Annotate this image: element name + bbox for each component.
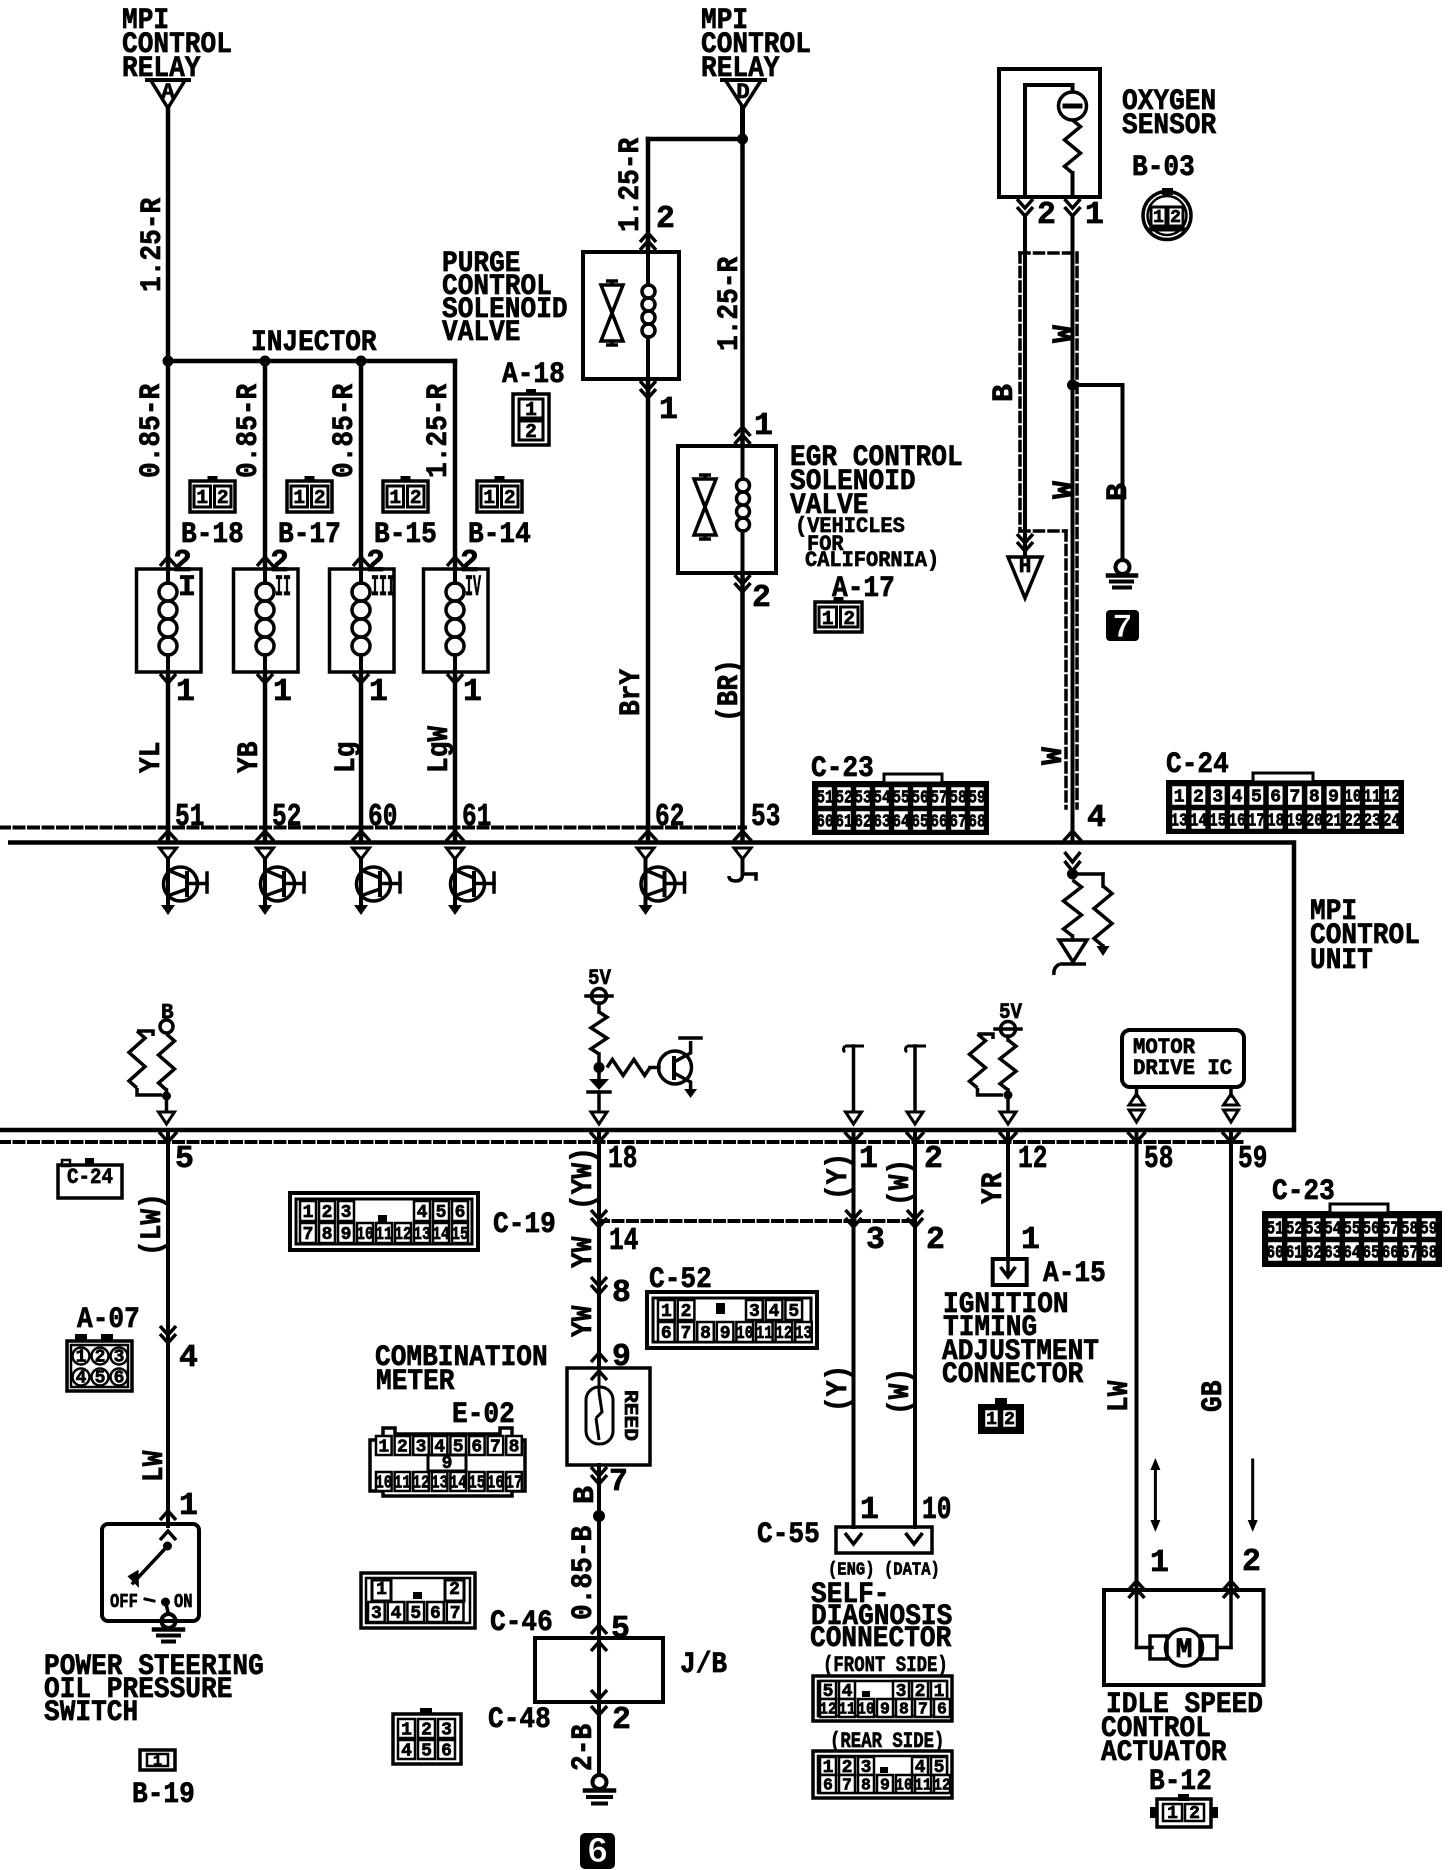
svg-text:1: 1 [303, 1203, 314, 1223]
injector IV box [424, 569, 489, 672]
svg-text:2: 2 [924, 1142, 943, 1177]
injector supply bus wire [166, 359, 455, 364]
connector C-48 symbol [393, 1714, 461, 1764]
svg-text:VALVE: VALVE [442, 316, 521, 350]
pin 1 of injector 3 [353, 674, 369, 683]
svg-text:4: 4 [76, 1369, 87, 1389]
svg-text:67: 67 [1401, 1244, 1418, 1264]
svg-text:12: 12 [412, 1474, 429, 1494]
svg-text:2: 2 [1189, 1804, 1200, 1824]
wire relay D to EGR valve [740, 139, 745, 446]
svg-text:57: 57 [930, 789, 947, 809]
svg-text:2: 2 [612, 1703, 631, 1738]
internal input line for pin 2 [906, 1046, 927, 1052]
svg-text:64: 64 [892, 813, 909, 833]
svg-text:1: 1 [483, 487, 495, 509]
svg-text:I: I [178, 571, 196, 605]
internal ground arrow at pin 4 [1101, 946, 1105, 950]
connector B-12 symbol (1|2) [1157, 1799, 1211, 1827]
svg-text:21: 21 [1325, 812, 1342, 832]
svg-text:(DATA): (DATA) [884, 1559, 940, 1581]
motor drive IC box [1122, 1030, 1244, 1087]
pin 52 entry chevron [256, 831, 274, 841]
svg-text:B-19: B-19 [132, 1778, 195, 1812]
svg-text:7: 7 [303, 1225, 314, 1245]
svg-text:62: 62 [1305, 1244, 1322, 1264]
pin 5 internal chevron [159, 1112, 175, 1124]
svg-text:53: 53 [854, 789, 871, 809]
svg-text:B-03: B-03 [1132, 151, 1195, 185]
svg-text:3: 3 [114, 1348, 125, 1368]
internal resistor at pin 18 [591, 1012, 607, 1054]
svg-text:60: 60 [368, 800, 397, 835]
svg-text:METER: METER [376, 1365, 455, 1399]
internal junction at pin 18 [594, 1062, 605, 1073]
svg-text:64: 64 [1343, 1244, 1360, 1264]
svg-text:REED: REED [619, 1390, 641, 1441]
svg-text:7: 7 [918, 1700, 928, 1719]
pin 1 of oxygen sensor [1065, 199, 1081, 208]
wire injector 4 branch [453, 361, 458, 569]
svg-text:1: 1 [859, 1142, 878, 1177]
svg-text:12: 12 [394, 1225, 411, 1245]
wire ECU pin 12 to timing connector [1006, 1130, 1010, 1259]
svg-text:B: B [988, 384, 1022, 402]
svg-text:1: 1 [1167, 1804, 1178, 1824]
svg-text:11: 11 [914, 1776, 931, 1795]
svg-text:LgW: LgW [423, 726, 457, 773]
connector E-02 symbol [370, 1428, 525, 1496]
J/B internal wire [591, 1642, 607, 1651]
svg-text:10: 10 [356, 1225, 373, 1245]
timing connector A-15 box [993, 1259, 1027, 1285]
svg-text:66: 66 [1382, 1244, 1399, 1264]
svg-text:59: 59 [1420, 1220, 1437, 1240]
svg-text:55: 55 [892, 789, 909, 809]
svg-text:4: 4 [179, 1341, 198, 1376]
pin 1 of injector 2 [257, 674, 273, 683]
svg-text:51: 51 [175, 800, 204, 835]
svg-text:6: 6 [441, 1742, 452, 1762]
svg-text:H: H [1019, 556, 1032, 579]
connector C-46 symbol [361, 1573, 475, 1628]
svg-text:53: 53 [751, 800, 780, 835]
svg-text:63: 63 [1324, 1244, 1341, 1264]
svg-text:9: 9 [1328, 788, 1339, 808]
svg-text:2: 2 [1170, 208, 1181, 228]
junction on meter ground wire [593, 1510, 605, 1522]
svg-text:8: 8 [861, 1776, 871, 1795]
svg-text:18: 18 [608, 1142, 637, 1177]
switch ground terminal [162, 1614, 176, 1628]
ECU bottom pin 18 [590, 1132, 608, 1142]
svg-text:61: 61 [1286, 1244, 1303, 1264]
joint dashed line [599, 1219, 915, 1223]
svg-text:YL: YL [135, 742, 169, 773]
junction at injector 2 [260, 356, 271, 367]
svg-text:J/B: J/B [680, 1648, 727, 1682]
svg-text:YB: YB [233, 742, 267, 773]
svg-text:1: 1 [1085, 198, 1104, 233]
svg-text:6: 6 [1270, 788, 1281, 808]
pin 2 at J/B [591, 1706, 607, 1715]
diagnosis connector C-55 box [836, 1527, 932, 1553]
pin 61 entry chevron [446, 831, 464, 841]
svg-text:5: 5 [95, 1369, 106, 1389]
svg-text:1: 1 [1174, 788, 1185, 808]
svg-text:5: 5 [175, 1142, 194, 1177]
svg-text:12: 12 [933, 1776, 950, 1795]
svg-text:SWITCH: SWITCH [44, 1696, 138, 1730]
svg-text:4: 4 [1232, 788, 1243, 808]
MPI control unit bottom dashed boundary [0, 1140, 1245, 1144]
svg-text:1: 1 [76, 1348, 87, 1368]
junction on W wire [1067, 380, 1078, 391]
svg-text:11: 11 [756, 1324, 773, 1344]
wire injector 2 branch [263, 361, 268, 569]
wire injector 4 to ECU pin 61 [453, 672, 458, 840]
svg-text:54: 54 [873, 789, 890, 809]
actuator motor [1135, 1593, 1139, 1648]
svg-text:0.85-R: 0.85-R [328, 384, 362, 478]
svg-text:LW: LW [138, 1451, 172, 1482]
pin 58 internal interface [1129, 1094, 1144, 1105]
svg-text:2: 2 [95, 1348, 106, 1368]
svg-text:22: 22 [1344, 812, 1361, 832]
svg-text:(Y): (Y) [822, 1365, 856, 1412]
svg-text:68: 68 [1420, 1244, 1437, 1264]
svg-text:2: 2 [217, 487, 229, 509]
svg-text:C-55: C-55 [757, 1518, 820, 1552]
MPI control unit top dashed boundary [0, 826, 745, 830]
svg-text:68: 68 [968, 813, 985, 833]
svg-text:8: 8 [1309, 788, 1320, 808]
svg-text:11: 11 [375, 1225, 392, 1245]
internal comparator diode at pin 4 [1059, 940, 1087, 962]
wire relay A down to injector bus [166, 108, 171, 361]
svg-text:1: 1 [196, 487, 208, 509]
connector A-17 symbol (1|2) [815, 602, 862, 632]
MPI control unit box outline [0, 843, 1294, 1131]
connector B-18 symbol (1|2) [190, 481, 235, 512]
svg-text:8: 8 [612, 1276, 631, 1311]
svg-text:II: II [275, 571, 291, 605]
ECU bottom pin 59 [1222, 1132, 1240, 1142]
svg-text:(BR): (BR) [713, 659, 747, 722]
svg-text:18: 18 [1267, 812, 1284, 832]
wire ECU pin 2 to diagnosis connector [913, 1130, 917, 1527]
svg-text:1: 1 [153, 1753, 162, 1770]
svg-text:INJECTOR: INJECTOR [251, 326, 377, 360]
svg-text:7: 7 [1290, 788, 1301, 808]
connector C-23 symbol (lower) [1262, 1211, 1442, 1267]
output transistor for pin 52 [257, 848, 274, 859]
intermediate joint 4 [160, 1326, 176, 1335]
svg-text:LW: LW [1103, 1381, 1137, 1412]
svg-text:A-07: A-07 [77, 1303, 140, 1337]
svg-text:1: 1 [661, 1302, 672, 1322]
svg-text:CALIFORNIA): CALIFORNIA) [805, 547, 939, 573]
svg-text:62: 62 [854, 813, 871, 833]
pin 18 internal chevron [591, 1112, 607, 1124]
wire oxygen sensor pin 2 (B) to heater ground H [1023, 216, 1027, 556]
svg-text:GB: GB [1197, 1381, 1231, 1412]
svg-text:6: 6 [471, 1438, 482, 1458]
purge valve symbol [606, 281, 618, 285]
svg-text:3: 3 [749, 1302, 760, 1322]
internal series resistor to transistor [607, 1060, 650, 1076]
svg-text:(Y): (Y) [822, 1153, 856, 1200]
pin 2 internal chevron [907, 1112, 923, 1124]
svg-text:7: 7 [1112, 610, 1132, 648]
injector I box [137, 569, 202, 672]
svg-text:1: 1 [176, 675, 195, 710]
wire ECU pin 18 down [597, 1130, 601, 1368]
svg-text:54: 54 [1324, 1220, 1341, 1240]
svg-text:2: 2 [1004, 1410, 1015, 1430]
svg-text:CONNECTOR: CONNECTOR [810, 1622, 951, 1656]
svg-text:W: W [1048, 325, 1082, 343]
svg-text:1: 1 [179, 1489, 198, 1524]
joint 8 on YW wire [591, 1277, 607, 1286]
wire branch to body ground [1073, 383, 1123, 387]
oxygen sensor element resistor [1065, 120, 1081, 173]
wire oxygen sensor pin 1 (W) to ECU pin 4 [1071, 216, 1075, 840]
shield dashed outline [1020, 251, 1077, 255]
svg-text:SENSOR: SENSOR [1122, 109, 1216, 143]
actuator motion arrow left [1154, 1468, 1157, 1522]
svg-text:9: 9 [880, 1700, 890, 1719]
svg-text:58: 58 [1401, 1220, 1418, 1240]
svg-text:6: 6 [114, 1369, 125, 1389]
purge control solenoid valve box [583, 252, 679, 379]
svg-text:YW: YW [567, 1306, 601, 1337]
internal pull-up resistors at pin 4 [1065, 852, 1081, 862]
svg-text:19: 19 [1286, 812, 1303, 832]
pin 1 of injector 4 [447, 674, 463, 683]
svg-text:24: 24 [1383, 812, 1400, 832]
svg-text:YW: YW [567, 1237, 601, 1268]
pin 12 internal chevron [1000, 1112, 1016, 1124]
oxygen sensor internal wiring [1025, 85, 1073, 197]
svg-text:6: 6 [455, 1203, 466, 1223]
wire injector 1 to ECU pin 51 [166, 672, 171, 840]
svg-text:2-B: 2-B [567, 1724, 601, 1771]
svg-text:3: 3 [866, 1223, 885, 1258]
svg-text:UNIT: UNIT [1310, 944, 1373, 978]
relay terminal D (triangle) [725, 80, 761, 108]
svg-text:2: 2 [314, 487, 326, 509]
injector I coil [166, 569, 170, 583]
joint 3 on Y wire [846, 1210, 862, 1219]
connector A-15 symbol (1|2) [978, 1404, 1024, 1434]
purge solenoid coil [646, 252, 650, 285]
body ground symbol [1116, 560, 1130, 574]
svg-text:13: 13 [413, 1225, 430, 1245]
svg-text:(W): (W) [884, 1159, 918, 1206]
ECU bottom pin 1 [845, 1132, 863, 1142]
actuator motion arrow right [1251, 1460, 1254, 1522]
svg-text:58: 58 [949, 789, 966, 809]
ECU bottom pin 5 [159, 1132, 177, 1142]
svg-text:6: 6 [430, 1604, 441, 1624]
svg-text:6: 6 [823, 1776, 833, 1795]
wire relay D down to junction [740, 108, 745, 139]
wire EGR valve to ECU pin 53 [740, 573, 745, 840]
svg-text:5: 5 [410, 1604, 421, 1624]
svg-text:B: B [1102, 483, 1136, 501]
svg-text:BrY: BrY [615, 669, 649, 716]
joint 14 on YW wire [591, 1210, 607, 1219]
svg-text:2: 2 [752, 581, 771, 616]
wire ECU pin 5 to power steering switch [166, 1130, 170, 1526]
diagnosis connector front side symbol [813, 1676, 952, 1721]
injector III box [330, 569, 395, 672]
svg-text:15: 15 [451, 1225, 468, 1245]
injector II box [234, 569, 299, 672]
svg-text:7: 7 [450, 1604, 461, 1624]
svg-text:1: 1 [659, 393, 678, 428]
svg-text:5: 5 [436, 1203, 447, 1223]
pin 7 of combination meter [591, 1467, 607, 1476]
joint 2 on W wire [907, 1210, 923, 1219]
svg-text:0.85-B: 0.85-B [567, 1526, 601, 1620]
svg-text:52: 52 [272, 800, 301, 835]
svg-text:8: 8 [322, 1225, 333, 1245]
svg-text:2: 2 [1037, 198, 1056, 233]
ground terminal H (triangle) [1008, 557, 1042, 598]
junction block J/B box [535, 1638, 663, 1702]
svg-text:11: 11 [838, 1700, 855, 1719]
svg-text:W: W [1037, 747, 1071, 765]
svg-text:2: 2 [410, 487, 422, 509]
wire junction to purge branch [648, 137, 743, 142]
svg-text:14: 14 [1190, 812, 1207, 832]
svg-text:5: 5 [421, 1742, 432, 1762]
svg-text:52: 52 [835, 789, 852, 809]
svg-text:14: 14 [432, 1225, 449, 1245]
pin 53 entry chevron [734, 831, 752, 841]
motor drive IC output wires [1135, 1087, 1139, 1096]
svg-text:2: 2 [397, 1438, 408, 1458]
svg-text:7: 7 [609, 1465, 628, 1500]
svg-text:2: 2 [322, 1203, 333, 1223]
svg-text:9: 9 [341, 1225, 352, 1245]
svg-text:D: D [736, 79, 750, 105]
svg-text:3: 3 [341, 1203, 352, 1223]
pin 5 at J/B [591, 1625, 607, 1634]
svg-text:63: 63 [873, 813, 890, 833]
internal transistor at pin 18 [659, 1051, 692, 1084]
svg-text:17: 17 [505, 1474, 522, 1494]
svg-text:14: 14 [609, 1224, 638, 1259]
svg-text:8: 8 [700, 1324, 711, 1344]
pin 4 entry chevron [1064, 831, 1082, 841]
connector B-17 symbol (1|2) [287, 481, 332, 512]
svg-text:1.25-R: 1.25-R [713, 257, 747, 351]
svg-text:C-48: C-48 [488, 1703, 551, 1737]
svg-text:W: W [1048, 481, 1082, 499]
svg-text:ON: ON [174, 1591, 193, 1613]
pin 51 entry chevron [159, 831, 177, 841]
wire injector 3 branch [359, 361, 364, 569]
svg-text:9: 9 [880, 1776, 890, 1795]
svg-text:10: 10 [736, 1324, 753, 1344]
connector B-03 symbol (round 1|2) [1143, 192, 1191, 240]
svg-text:11: 11 [394, 1474, 411, 1494]
junction at injector 3 [356, 356, 367, 367]
junction at injector 1 [163, 356, 174, 367]
svg-text:1: 1 [1150, 1546, 1169, 1581]
diagnosis connector rear side symbol [813, 1751, 952, 1798]
svg-text:12: 12 [1018, 1142, 1047, 1177]
connector A-07 symbol [67, 1341, 132, 1391]
wire purge valve to ECU pin 62 [646, 379, 651, 840]
svg-text:51: 51 [1267, 1220, 1284, 1240]
svg-text:12: 12 [819, 1700, 836, 1719]
idle speed control actuator box [1104, 1590, 1264, 1685]
svg-text:2: 2 [421, 1721, 432, 1741]
svg-text:A-15: A-15 [1043, 1257, 1106, 1291]
svg-text:9: 9 [720, 1324, 731, 1344]
svg-text:5: 5 [1251, 788, 1262, 808]
svg-text:2: 2 [926, 1223, 945, 1258]
svg-text:15: 15 [1209, 812, 1226, 832]
arrow to H [1017, 534, 1033, 543]
svg-text:23: 23 [1364, 812, 1381, 832]
output transistor for pin 60 [353, 848, 370, 859]
connector B-19 symbol [140, 1750, 175, 1770]
pin 1 of purge control solenoid valve [640, 381, 656, 390]
svg-text:A-18: A-18 [502, 358, 565, 392]
svg-text:C-23: C-23 [1272, 1175, 1335, 1209]
svg-text:1: 1 [378, 1438, 389, 1458]
svg-text:2: 2 [656, 202, 675, 237]
connector C-24 symbol [1166, 780, 1404, 834]
svg-text:Lg: Lg [330, 742, 364, 773]
pin 60 entry chevron [352, 831, 370, 841]
svg-text:1: 1 [1021, 1223, 1040, 1258]
oxygen sensor heater element (circle) [1059, 92, 1087, 120]
injector IV coil [453, 569, 457, 583]
output transistor for pin 61 [447, 848, 464, 859]
svg-text:IV: IV [465, 571, 481, 605]
svg-text:0.85-R: 0.85-R [135, 384, 169, 478]
section reference 6 (black box) [580, 1833, 615, 1869]
reed switch capsule [591, 1371, 607, 1380]
pin 62 entry chevron [639, 831, 657, 841]
svg-text:20: 20 [1306, 812, 1323, 832]
input stage for pin 53 [734, 848, 751, 859]
svg-text:(W): (W) [884, 1368, 918, 1415]
svg-text:1: 1 [860, 1493, 879, 1528]
wire injector 3 to ECU pin 60 [359, 672, 364, 840]
svg-text:C-19: C-19 [493, 1208, 556, 1242]
svg-text:5: 5 [788, 1302, 799, 1322]
pin 2 of oxygen sensor [1017, 199, 1033, 208]
svg-text:3: 3 [416, 1438, 427, 1458]
svg-text:1.25-R: 1.25-R [422, 384, 456, 478]
svg-text:1: 1 [389, 487, 401, 509]
svg-text:2: 2 [504, 487, 516, 509]
svg-text:10: 10 [895, 1776, 912, 1795]
svg-text:2: 2 [1193, 788, 1204, 808]
svg-text:60: 60 [816, 813, 833, 833]
relay terminal A (triangle) [151, 80, 186, 108]
svg-text:10: 10 [922, 1493, 951, 1528]
svg-text:C-46: C-46 [490, 1606, 553, 1640]
internal resistor pair at pin 12 [1006, 1036, 1010, 1040]
